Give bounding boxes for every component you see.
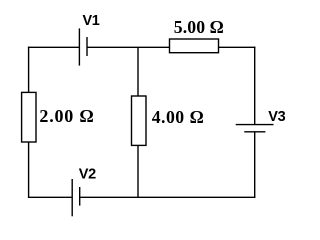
battery V2 long plate: [71, 179, 73, 216]
wire top-middle segment (V1 to 5-ohm resistor, through node A): [87, 46, 170, 48]
resistor R1 2.00-ohm box: [22, 92, 36, 142]
wire left vertical lower (2-ohm resistor to bottom corner): [28, 142, 30, 198]
battery V1 long plate: [78, 28, 80, 65]
svg-text:4.00 Ω: 4.00 Ω: [152, 107, 205, 127]
resistor R3 5.00-ohm box: [170, 39, 219, 53]
svg-text:V3: V3: [268, 109, 285, 125]
wire right vertical upper (corner to V3): [254, 47, 256, 125]
svg-text:V2: V2: [79, 166, 96, 182]
svg-text:2.00 Ω: 2.00 Ω: [39, 106, 94, 126]
wire middle vertical lower (4-ohm resistor to bottom wire): [137, 145, 139, 197]
svg-text:V1: V1: [83, 13, 100, 29]
resistor R2 4.00-ohm box: [132, 96, 147, 145]
wire top-right segment (5-ohm resistor to right corner): [219, 46, 256, 48]
battery V1 short plate: [86, 37, 88, 56]
wire bottom-left segment (corner to V2): [29, 196, 73, 198]
wire middle vertical upper (node A to 4-ohm resistor): [137, 47, 139, 96]
battery V3 short plate: [244, 131, 265, 133]
wire left vertical upper (corner to 2-ohm resistor): [28, 47, 30, 93]
battery V2 short plate: [79, 187, 81, 206]
wire top-left segment (left corner to V1): [28, 46, 80, 48]
battery V3 long plate: [236, 124, 274, 126]
svg-text:5.00 Ω: 5.00 Ω: [174, 17, 224, 37]
wire right vertical lower (V3 to bottom corner): [254, 132, 256, 198]
wire bottom-right segment (V2 to right corner): [80, 196, 256, 198]
